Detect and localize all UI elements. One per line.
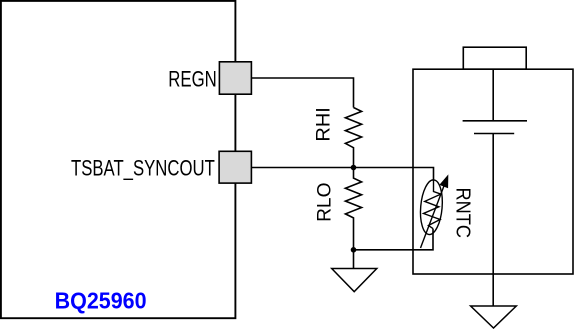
svg-text:RHI: RHI — [314, 107, 335, 141]
wire node B to ground — [353, 250, 355, 269]
thermistor RNTC ellipse — [418, 179, 444, 235]
node B junction dot — [351, 247, 357, 253]
thermistor RNTC variable arrow shaft — [421, 186, 444, 248]
ground GND1 — [332, 269, 377, 292]
pin TSBAT_SYNCOUT pad — [219, 151, 251, 183]
IC U1 BQ25960 body — [1, 1, 236, 318]
wire battery top lead — [492, 69, 494, 121]
thermistor RNTC zigzag element — [424, 181, 441, 229]
wire battery negative to ground — [492, 134, 494, 307]
wire node B to RNTC bottom — [354, 229, 434, 250]
resistor RLO — [345, 168, 361, 250]
wire TSBAT_SYNCOUT pin to RNTC top — [251, 168, 433, 181]
battery pack enclosure box — [413, 69, 573, 274]
pin REGN pad — [219, 62, 251, 94]
node A junction dot — [351, 165, 357, 171]
svg-text:TSBAT_SYNCOUT: TSBAT_SYNCOUT — [71, 156, 215, 181]
battery pack tab — [463, 47, 526, 69]
svg-text:RNTC: RNTC — [452, 188, 474, 239]
svg-text:REGN: REGN — [168, 67, 217, 92]
resistor RHI — [345, 108, 361, 168]
svg-text:RLO: RLO — [315, 183, 336, 222]
svg-text:BQ25960: BQ25960 — [55, 287, 147, 313]
ground GND2 — [471, 306, 517, 328]
wire REGN pin to RHI top corner — [251, 78, 353, 108]
battery BT1 cell plates — [463, 121, 527, 134]
thermistor RNTC arrowhead — [440, 176, 448, 188]
